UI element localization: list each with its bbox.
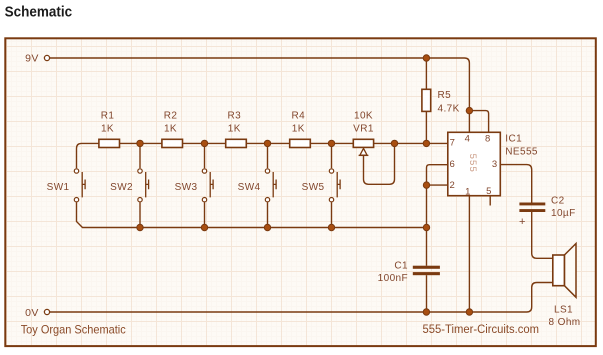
- svg-text:1K: 1K: [101, 123, 114, 134]
- svg-text:5: 5: [486, 186, 492, 197]
- svg-text:NE555: NE555: [505, 146, 538, 157]
- node pin2/pin6 junction: [423, 182, 429, 188]
- wire C2 bottom to speaker top: [532, 212, 553, 258]
- svg-text:R5: R5: [438, 90, 452, 101]
- node bus/vertical junction: [423, 224, 429, 230]
- wire C1 bottom to 0V rail: [426, 275, 428, 312]
- wire pin 3 to C2 top: [500, 165, 531, 203]
- wire VR1 wiper loop: [364, 143, 395, 184]
- resistor R1: [99, 139, 120, 147]
- node VR1 wiper junction: [391, 140, 397, 146]
- capacitor C1: [413, 266, 440, 276]
- svg-text:10K: 10K: [354, 110, 373, 121]
- wire SW2 bottom drop: [139, 202, 141, 227]
- wire R4 to VR1: [310, 142, 353, 144]
- node pin1/0V junction: [466, 309, 472, 315]
- wire R2 to R3: [183, 142, 226, 144]
- node R1/R2/SW2 junction: [137, 140, 143, 146]
- svg-text:3: 3: [492, 159, 498, 170]
- svg-text:+: +: [519, 216, 525, 228]
- pushbutton SW3: [202, 169, 213, 202]
- wire pin 5 stub: [489, 196, 491, 206]
- svg-text:SW4: SW4: [238, 182, 261, 193]
- terminal 9V: [44, 55, 49, 60]
- node SW3 bus junction: [201, 224, 207, 230]
- svg-text:6: 6: [449, 159, 455, 170]
- wire SW5 top drop: [331, 143, 333, 168]
- wire pin 1 down to 0V rail: [468, 196, 470, 312]
- svg-text:1K: 1K: [228, 123, 241, 134]
- wire 9V rail to pin 4 drop: [50, 58, 469, 132]
- svg-text:SW1: SW1: [47, 182, 70, 193]
- svg-text:SW2: SW2: [110, 182, 133, 193]
- speaker LS1 cone: [564, 244, 576, 298]
- svg-text:1K: 1K: [292, 123, 305, 134]
- svg-text:4: 4: [465, 134, 471, 145]
- svg-text:R2: R2: [164, 110, 178, 121]
- wire pin 8 branch: [469, 111, 488, 133]
- potentiometer VR1 body: [353, 139, 373, 147]
- wire VR1 to IC pin 7: [374, 142, 448, 144]
- resistor R2: [162, 139, 183, 147]
- wire R5 bottom lead: [425, 111, 427, 143]
- wire 0V rail up to speaker bottom: [50, 283, 553, 313]
- op-amp / timer IC1 NE555 body: [448, 132, 501, 195]
- resistor R4: [290, 139, 311, 147]
- node 9V/R5 junction: [423, 55, 429, 61]
- svg-text:Toy Organ Schematic: Toy Organ Schematic: [21, 322, 126, 336]
- potentiometer VR1 wiper arrow: [359, 148, 369, 155]
- node SW5 bus junction: [328, 224, 334, 230]
- svg-text:Schematic: Schematic: [5, 4, 73, 21]
- svg-text:VR1: VR1: [353, 123, 374, 134]
- wire R1 to R2: [120, 142, 162, 144]
- svg-text:R3: R3: [228, 110, 242, 121]
- svg-text:1K: 1K: [164, 123, 177, 134]
- wire SW4 top drop: [267, 143, 269, 168]
- svg-text:100nF: 100nF: [378, 273, 408, 284]
- node SW2 bus junction: [137, 224, 143, 230]
- pushbutton SW5: [329, 169, 340, 202]
- node R4/VR1/SW5 junction: [328, 140, 334, 146]
- svg-text:9V: 9V: [25, 52, 39, 64]
- node pin4/pin8 junction: [466, 107, 472, 113]
- node SW4 bus junction: [264, 224, 270, 230]
- resistor R5: [422, 89, 431, 111]
- resistor R3: [226, 139, 247, 147]
- svg-text:8: 8: [485, 134, 491, 145]
- svg-text:C2: C2: [551, 195, 565, 206]
- pushbutton SW4: [265, 169, 276, 202]
- svg-text:10µF: 10µF: [551, 208, 576, 219]
- capacitor C2: [519, 203, 545, 213]
- svg-text:SW3: SW3: [175, 182, 198, 193]
- wire row left corner to SW1 top: [77, 143, 99, 168]
- pushbutton SW2: [138, 169, 149, 202]
- svg-text:7: 7: [450, 138, 456, 149]
- wire pin 6 to vertical and down to C1: [427, 165, 448, 266]
- pushbutton SW1: [74, 169, 85, 202]
- terminal 0V: [44, 309, 49, 314]
- svg-text:1: 1: [465, 187, 471, 198]
- speaker LS1 body: [553, 255, 565, 286]
- wire SW1 bottom chamfer and bus: [77, 202, 427, 227]
- wire R5 top lead: [425, 58, 427, 89]
- svg-text:555: 555: [467, 154, 478, 173]
- node R5/row junction: [423, 140, 429, 146]
- svg-text:IC1: IC1: [505, 134, 522, 145]
- svg-text:C1: C1: [394, 260, 408, 271]
- svg-text:0V: 0V: [25, 307, 39, 319]
- wire SW3 bottom drop: [204, 202, 206, 227]
- svg-text:8 Ohm: 8 Ohm: [549, 317, 581, 328]
- svg-text:4.7K: 4.7K: [438, 104, 460, 115]
- svg-text:SW5: SW5: [302, 182, 325, 193]
- wire R3 to R4: [246, 142, 289, 144]
- wire SW4 bottom drop: [267, 202, 269, 227]
- svg-text:R1: R1: [101, 110, 115, 121]
- wire pin 2: [427, 184, 448, 186]
- wire SW3 top drop: [204, 143, 206, 168]
- node R3/R4/SW4 junction: [264, 140, 270, 146]
- wire SW5 bottom drop: [331, 202, 333, 227]
- svg-text:LS1: LS1: [554, 304, 573, 315]
- svg-text:R4: R4: [292, 110, 306, 121]
- node C1/0V junction: [423, 309, 429, 315]
- svg-text:555-Timer-Circuits.com: 555-Timer-Circuits.com: [423, 322, 540, 336]
- wire SW2 top drop: [139, 143, 141, 168]
- node R2/R3/SW3 junction: [201, 140, 207, 146]
- svg-text:2: 2: [449, 180, 455, 191]
